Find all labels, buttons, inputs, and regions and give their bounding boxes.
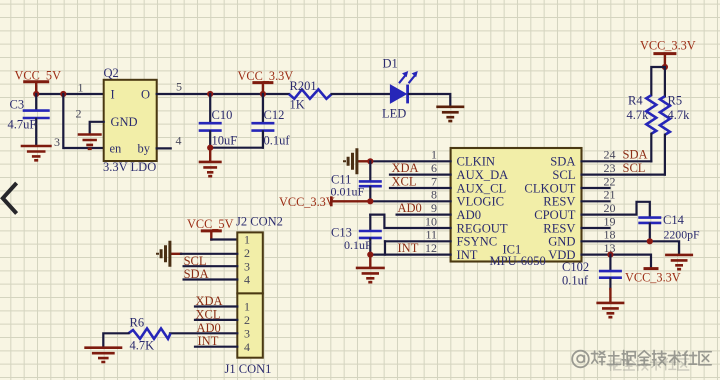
svg-text:24: 24: [604, 148, 616, 162]
node junction pin1/C11: [367, 158, 373, 164]
wire cap bottoms: [210, 147, 263, 149]
svg-text:INT: INT: [457, 248, 478, 262]
svg-text:INT: INT: [198, 334, 219, 348]
wire en feedback: [63, 94, 103, 148]
svg-text:1: 1: [244, 233, 250, 247]
svg-text:18: 18: [604, 228, 616, 242]
svg-text:J1 CON1: J1 CON1: [225, 362, 272, 376]
node junction VCC_3.3V/C12: [260, 91, 266, 97]
wire pin 21 stub: [582, 200, 610, 202]
svg-text:5: 5: [176, 80, 182, 94]
wire LED to ground: [409, 94, 450, 106]
node junction VCC_5V/C3: [33, 91, 39, 97]
node junction pin12/C13: [367, 252, 373, 258]
watermark echo: [609, 358, 689, 370]
wire pin11 FSYNC: [385, 240, 451, 242]
wire Q2 by pin stub: [157, 147, 171, 149]
capacitor C10: [209, 94, 211, 122]
svg-text:2200pF: 2200pF: [664, 228, 700, 242]
svg-text:0.01uF: 0.01uF: [331, 185, 365, 199]
ground LED: [436, 107, 464, 121]
svg-text:J2 CON2: J2 CON2: [236, 215, 283, 229]
svg-text:I: I: [111, 88, 115, 102]
svg-text:CLKOUT: CLKOUT: [524, 181, 575, 195]
wire pin 19 stub: [582, 227, 610, 229]
ground below C10/C12: [209, 148, 211, 162]
svg-text:C102: C102: [562, 260, 589, 274]
wire main 5V/3.3V rail: [36, 93, 104, 95]
svg-text:4.7K: 4.7K: [130, 339, 155, 353]
svg-text:1K: 1K: [290, 98, 305, 112]
wire pin6 XDA: [390, 174, 451, 176]
capacitor C11: [369, 161, 371, 180]
svg-text:C10: C10: [212, 108, 233, 122]
svg-text:VLOGIC: VLOGIC: [457, 195, 505, 209]
capacitor C12: [262, 94, 264, 122]
wire J1 pin2 XCL: [195, 319, 237, 321]
regulator Q2 box: [104, 80, 157, 161]
svg-text:4: 4: [176, 134, 182, 148]
svg-text:C12: C12: [264, 108, 285, 122]
svg-text:R4: R4: [628, 94, 643, 108]
node junction pin13/C102: [607, 252, 613, 258]
svg-text:21: 21: [604, 188, 616, 202]
svg-text:FSYNC: FSYNC: [457, 235, 498, 249]
svg-text:XDA: XDA: [196, 294, 223, 308]
svg-text:1: 1: [244, 300, 250, 314]
wire R201 to LED: [332, 93, 391, 95]
svg-text:VCC_3.3V: VCC_3.3V: [279, 195, 335, 209]
resistor R6: [129, 328, 171, 338]
svg-text:VCC_5V: VCC_5V: [187, 217, 234, 231]
svg-text:SCL: SCL: [623, 161, 646, 175]
wire pin24 SDA: [582, 160, 652, 162]
node junction C10: [207, 91, 213, 97]
svg-text:22: 22: [604, 174, 616, 188]
ground below C102: [609, 289, 611, 302]
svg-text:GND: GND: [111, 115, 138, 129]
wire pin7 XCL: [390, 187, 451, 189]
wire pin23 SCL: [582, 174, 665, 176]
svg-text:RESV: RESV: [543, 221, 575, 235]
earth ground pin1: [357, 160, 370, 162]
capacitor C102: [609, 255, 611, 271]
wire pin12 INT: [370, 254, 450, 256]
svg-text:C14: C14: [663, 213, 685, 227]
svg-text:2: 2: [244, 246, 250, 260]
svg-text:10: 10: [425, 214, 437, 228]
ground below C13: [369, 255, 371, 268]
svg-text:O: O: [141, 88, 150, 102]
resistor R5: [664, 67, 666, 96]
node junction C14/GND: [647, 238, 653, 244]
svg-text:XDA: XDA: [392, 161, 419, 175]
wire J2 pin2 earth: [170, 253, 181, 255]
wire pin9 AD0: [397, 214, 451, 216]
wire 3.3V rail: [157, 93, 289, 95]
capacitor C13: [369, 215, 371, 231]
ground Q2: [78, 135, 102, 149]
watermark: [572, 351, 589, 368]
svg-text:19: 19: [604, 214, 616, 228]
connector J1 CON1 box: [237, 293, 262, 357]
svg-text:VCC_3.3V: VCC_3.3V: [238, 69, 294, 83]
op-amp/IC U1 MPU-6050 body: [451, 148, 582, 262]
svg-text:by: by: [138, 142, 151, 156]
svg-text:VCC_3.3V: VCC_3.3V: [625, 271, 681, 285]
svg-text:10uF: 10uF: [212, 134, 238, 148]
svg-text:REGOUT: REGOUT: [457, 221, 508, 235]
svg-text:23: 23: [604, 161, 616, 175]
wire J2 pin4 SDA: [184, 278, 238, 280]
wire pin8 VLOGIC: [370, 200, 450, 202]
resistor R201: [289, 89, 332, 98]
svg-text:MPU-6050: MPU-6050: [490, 254, 546, 268]
svg-text:3.3V LDO: 3.3V LDO: [103, 160, 156, 174]
svg-text:4.7k: 4.7k: [627, 108, 650, 122]
svg-text:VCC_3.3V: VCC_3.3V: [640, 39, 696, 53]
svg-text:AUX_DA: AUX_DA: [457, 168, 509, 182]
svg-text:2: 2: [76, 107, 82, 121]
svg-text:4.7uF: 4.7uF: [8, 118, 37, 132]
svg-text:11: 11: [425, 228, 437, 242]
left chevron arrow: [3, 183, 17, 214]
connector J2 CON2 box: [237, 232, 262, 293]
svg-text:4.7k: 4.7k: [668, 108, 691, 122]
svg-text:20: 20: [604, 201, 616, 215]
svg-text:2: 2: [244, 313, 250, 327]
wire Q2 GND pin: [90, 122, 104, 134]
wire REGOUT jog: [370, 215, 450, 228]
node junction pin8: [367, 198, 373, 204]
wire pin1 CLKIN: [370, 160, 450, 162]
capacitor C3: [35, 94, 37, 110]
wire J2 pin3 SCL: [184, 265, 238, 267]
svg-text:3: 3: [54, 135, 60, 149]
svg-text:LED: LED: [382, 107, 406, 121]
svg-text:R201: R201: [290, 79, 317, 93]
svg-text:RESV: RESV: [543, 195, 575, 209]
svg-text:0.1uF: 0.1uF: [344, 238, 372, 252]
LED D1: [390, 85, 406, 103]
svg-text:AD0: AD0: [398, 201, 422, 215]
svg-text:CLKIN: CLKIN: [457, 155, 495, 169]
svg-text:12: 12: [425, 241, 437, 255]
svg-text:SCL: SCL: [552, 168, 575, 182]
svg-text:R5: R5: [668, 94, 683, 108]
wire J1 pin4 INT: [195, 346, 237, 348]
svg-text:0.1uf: 0.1uf: [264, 134, 291, 148]
svg-text:R6: R6: [130, 316, 145, 330]
svg-text:7: 7: [431, 174, 437, 188]
wire pin13 VDD: [582, 255, 652, 267]
svg-text:XCL: XCL: [392, 175, 417, 189]
svg-text:6: 6: [431, 161, 437, 175]
resistor R4: [651, 67, 665, 95]
svg-text:INT: INT: [398, 241, 419, 255]
svg-text:8: 8: [431, 188, 437, 202]
svg-text:AUX_CL: AUX_CL: [457, 181, 507, 195]
svg-text:1: 1: [78, 81, 84, 95]
svg-text:D1: D1: [383, 57, 398, 71]
node junction en branch: [60, 91, 66, 97]
ground R6: [84, 348, 122, 362]
svg-text:CPOUT: CPOUT: [534, 208, 576, 222]
wire R6 to ground: [103, 333, 128, 347]
svg-text:4: 4: [244, 340, 250, 354]
capacitor C14: [638, 218, 661, 223]
svg-text:C3: C3: [10, 98, 25, 112]
ground below C3: [21, 146, 52, 160]
svg-text:SDA: SDA: [623, 147, 648, 161]
wire pin18 GND: [582, 241, 680, 254]
svg-text:GND: GND: [548, 235, 575, 249]
wire pin20 CPOUT to C14: [582, 202, 650, 217]
svg-text:1: 1: [431, 148, 437, 162]
svg-text:en: en: [110, 142, 123, 156]
node junction R4/R5: [662, 64, 668, 70]
wire J2 pin1: [211, 238, 237, 240]
node junction gnd caps: [207, 145, 213, 151]
svg-text:3: 3: [244, 259, 250, 273]
svg-text:Q2: Q2: [104, 66, 119, 80]
svg-text:AD0: AD0: [457, 208, 482, 222]
power port VCC_3.3V bottom: [644, 267, 659, 270]
svg-text:XCL: XCL: [196, 307, 221, 321]
wire J1 pin3 AD0: [170, 332, 237, 334]
svg-text:0.1uf: 0.1uf: [562, 274, 589, 288]
svg-text:3: 3: [244, 327, 250, 341]
svg-text:SDA: SDA: [550, 155, 575, 169]
svg-text:SDA: SDA: [184, 267, 209, 281]
wire pin 22 stub: [582, 187, 610, 189]
svg-text:9: 9: [431, 201, 437, 215]
svg-text:4: 4: [244, 273, 250, 287]
ground right: [665, 255, 693, 269]
svg-text:AD0: AD0: [197, 321, 221, 335]
svg-text:SCL: SCL: [184, 254, 207, 268]
wire J1 pin1 XDA: [195, 305, 237, 307]
